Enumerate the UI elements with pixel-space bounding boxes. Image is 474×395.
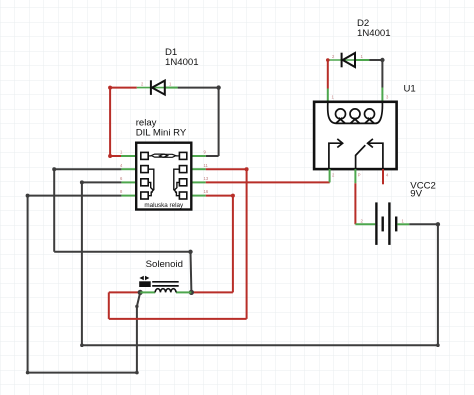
wire red pin16 [206,195,233,197]
svg-text:P: P [358,173,361,178]
U1 switch lever [356,145,366,168]
wire red vertical left of D1 (pin1 to diode row) [109,88,111,156]
wire red horizontal pin1 row [110,155,121,157]
solenoid green lead right [176,291,191,293]
wire red pin11 [206,168,247,170]
U1 coil loops [328,103,383,124]
wire red bottom horizontal [109,318,247,320]
node black corner D1 right [216,85,220,89]
solenoid core bars [152,282,179,286]
solenoid armature block [139,281,151,287]
diode D2 [342,53,355,68]
node corner pin4 [52,167,56,171]
wire black D1 right to corner [178,87,219,89]
wire red horizontal D1 row left [110,87,137,89]
relay pin squares left [141,152,148,199]
solenoid node left [138,290,143,295]
relay green leg pin13 [191,181,206,183]
node bend point [135,305,138,308]
wire black battery right [409,223,438,225]
solenoid node right [189,290,194,295]
svg-text:Solenoid: Solenoid [146,259,183,270]
solenoid green lead left [140,291,155,293]
node red corner D2 left [326,58,330,62]
svg-text:U1: U1 [404,84,416,95]
node black corner D2 right [380,58,384,62]
relay green leg pin6 [121,181,136,183]
svg-text:maluska relay: maluska relay [144,202,184,209]
node corner bottom far left [26,371,30,375]
node corner pin6 [80,180,84,184]
svg-text:1N4001: 1N4001 [165,57,199,68]
U1 green bottom-middle leg [354,169,356,183]
wire black D2 right [369,59,382,61]
relay green leg pin16 [191,195,206,197]
diode D1 [151,80,165,95]
node red corner D1 left [108,86,112,90]
relay pin squares right [179,152,186,199]
wire black pin8 vertical far left [27,196,29,373]
U1 switch left arm with arrow [329,143,342,168]
wire black vertical to pin9 [218,88,220,156]
relay switch left [148,169,154,196]
wire black right vertical [437,224,439,345]
wire red vertical up left [108,292,110,319]
wire red pin16 vertical [232,196,234,293]
wire black pin4 row [54,168,121,170]
wire black slant to solenoid left node [137,292,140,306]
wire black pin8 row [28,195,122,197]
svg-text:16: 16 [204,189,209,194]
relay green leg pin9 [191,155,206,157]
wire green D2 right [355,59,369,61]
diode D2 wires: corner left [328,59,370,61]
wire black horizontal to solenoid top [54,251,190,253]
relay green leg pin8 [121,195,136,197]
node red corner pin16 [231,194,235,198]
U1 box [314,102,397,169]
solenoid coil bumps [155,289,176,293]
wire black pin9 row [206,155,219,157]
wire green battery left leg [355,223,375,225]
wire black down to solenoid right [190,252,193,293]
battery VCC2 [376,202,396,245]
wire red pin11 vertical [246,169,248,319]
svg-text:11: 11 [204,163,209,168]
relay green leg pin1 [121,155,136,157]
solenoid double arrow [139,276,143,280]
wire red D2 left vertical [327,60,329,89]
wire green battery right leg [397,223,409,225]
wire red pin13 to U1 [206,181,330,183]
U1 switch right arm with arrow [368,143,383,168]
wire green U1 top-right leg [381,88,383,103]
wire black bottom long horizontal [82,344,438,346]
node corner pin8 [26,194,30,198]
wire green U1 top-left leg [327,89,329,103]
node red corner pin1 [108,154,112,158]
wire green leg D1 left [137,87,178,89]
wire black vertical up to solenoid left [136,306,138,372]
relay green leg pin11 [191,168,206,170]
relay switch right [174,169,180,196]
svg-text:9V: 9V [410,188,422,199]
U1 red bottom-right stub [382,169,384,184]
node corner below solenoid [135,371,139,375]
svg-text:DIL Mini RY: DIL Mini RY [136,127,187,138]
U1 green bottom-left leg [329,169,331,182]
node red corner pin11 [245,167,249,171]
wire red solenoid right [191,291,233,293]
relay green leg pin4 [121,168,136,170]
node corner bottom right [436,343,440,347]
node corner battery right [436,222,440,226]
wire black pin6 row [82,181,122,183]
node corner bottom left mid [80,343,84,347]
wire black pin6 vertical [81,182,83,345]
svg-text:1N4001: 1N4001 [357,28,391,39]
wire black pin4 vertical [53,169,55,252]
svg-text:13: 13 [204,176,209,181]
wire red middle to battery [354,183,356,224]
relay U (DIL Mini RY) box [136,143,191,210]
wire black D2 right vertical [381,60,383,88]
node corner above solenoid [188,250,192,254]
wire red to solenoid left [109,291,140,293]
wire green leg D1 right [165,87,178,89]
wire black bottom horizontal short [28,372,137,374]
relay coil symbol [148,154,179,157]
